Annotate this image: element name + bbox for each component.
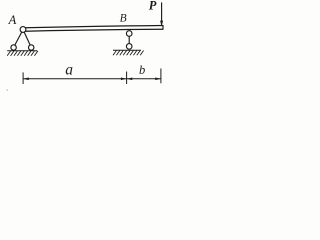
- pin circle A: [20, 27, 26, 33]
- support A right roller circle: [29, 45, 34, 50]
- ground hatching A: [7, 51, 38, 56]
- svg-text:P: P: [149, 0, 157, 12]
- load P arrowhead: [160, 21, 163, 27]
- dimension extension tick at A: [22, 72, 24, 84]
- scan speck: [6, 89, 8, 91]
- dimension extension tick at load point: [160, 69, 162, 84]
- support B lower hinge circle: [126, 44, 132, 50]
- ground line B: [113, 49, 141, 51]
- svg-text:b: b: [139, 63, 145, 77]
- dim b right arrowhead: [155, 78, 161, 81]
- dim a right arrowhead: [121, 78, 127, 81]
- beam bottom line: [26, 29, 163, 31]
- support A right link: [24, 32, 30, 45]
- svg-text:B: B: [120, 13, 127, 25]
- dimension line b: [127, 78, 161, 80]
- beam top line: [25, 26, 163, 28]
- dimension extension tick at B: [126, 72, 128, 85]
- ground hatching B: [113, 51, 144, 56]
- beam right end cap: [162, 25, 164, 30]
- dim a left arrowhead: [23, 78, 29, 81]
- load P arrow shaft: [161, 2, 163, 22]
- support A left roller circle: [11, 45, 16, 50]
- support B link bar: [128, 36, 130, 43]
- support B upper hinge circle: [126, 31, 132, 37]
- dim b left arrowhead: [127, 78, 133, 81]
- ground line A: [7, 50, 37, 52]
- svg-text:a: a: [65, 62, 73, 79]
- support A left link: [15, 32, 22, 45]
- dimension line a: [23, 78, 127, 80]
- svg-text:A: A: [8, 13, 17, 27]
